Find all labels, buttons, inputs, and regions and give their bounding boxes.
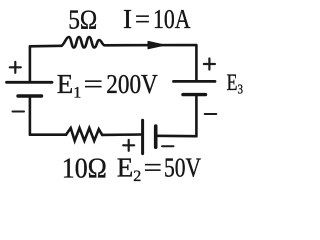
svg-text:10Ω: 10Ω (62, 154, 107, 185)
minus sign E1 (13, 111, 25, 113)
svg-text:=: = (144, 153, 163, 183)
svg-text:50V: 50V (164, 153, 201, 183)
wire E1 to bottom-left corner to resistor R2 (30, 96, 66, 135)
battery E2 long plate (+) (141, 120, 144, 153)
svg-text:5Ω: 5Ω (68, 5, 97, 35)
svg-text:10A: 10A (153, 4, 191, 34)
wire resistor R2 to battery E2 (102, 133, 141, 136)
svg-text:=: = (84, 69, 104, 99)
svg-text:E3: E3 (227, 70, 244, 97)
battery E3 short plate (-) (183, 93, 206, 96)
resistor R1 5ohm (top, rounded zigzag) (62, 37, 105, 48)
battery E2 short plate (-) (154, 126, 158, 147)
battery E3 long plate (+) (174, 80, 216, 83)
wire resistor to top-right corner and down to E3 (105, 45, 197, 81)
svg-text:I: I (123, 4, 132, 34)
plus sign E2 (123, 140, 134, 151)
minus sign E3 (205, 113, 217, 115)
battery E1 short plate (-) (18, 94, 42, 97)
resistor R2 10ohm (bottom, sharp zigzag) (66, 128, 102, 141)
plus sign E1 (10, 62, 21, 73)
minus sign E2 (162, 145, 174, 147)
battery E1 long plate (+) (7, 81, 53, 84)
svg-text:E2: E2 (117, 153, 142, 186)
current arrow I (148, 41, 165, 48)
svg-text:200V: 200V (106, 69, 158, 99)
wire E2 to bottom-right corner up to E3 (156, 95, 197, 136)
plus sign E3 (204, 59, 215, 70)
wire top-left corner and left side down to E1 (30, 46, 62, 82)
svg-text:E1: E1 (57, 69, 82, 102)
svg-text:=: = (135, 4, 150, 34)
